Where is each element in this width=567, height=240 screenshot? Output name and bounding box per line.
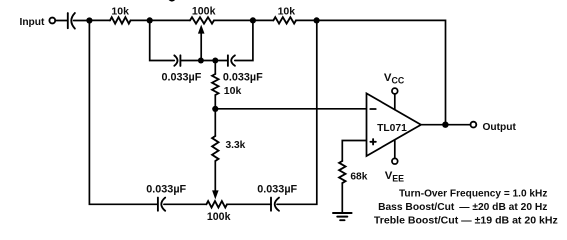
svg-text:Output: Output: [483, 122, 517, 133]
node E junction dot: [212, 106, 218, 112]
VCC pin stub: [394, 94, 396, 110]
svg-text:Bass Boost/Cut — ±20 dB at 20: Bass Boost/Cut — ±20 dB at 20 Hz: [378, 202, 547, 213]
wire: treble right cap up to node C: [235, 20, 253, 60]
resistor 3.3k (vertical): [212, 109, 218, 161]
svg-text:68k: 68k: [350, 171, 367, 182]
svg-text:0.033µF: 0.033µF: [162, 72, 202, 84]
svg-text:0.033µF: 0.033µF: [257, 183, 297, 195]
wire: 10k to node B: [131, 19, 150, 21]
output junction dot: [442, 122, 448, 128]
output terminal circle: [471, 122, 477, 128]
op-amp U1 TL071 triangle: [367, 93, 422, 156]
wire: input terminal to coupling cap: [55, 20, 67, 22]
resistor 68k (vertical): [339, 161, 345, 183]
wire: node A to resistor 10k (left): [89, 19, 110, 21]
wire: op-amp plus input to 68k: [342, 141, 366, 162]
wire: bass pot to bass right cap: [227, 203, 271, 205]
capacitor 0.033uF (treble left): [174, 55, 180, 66]
wire: 10k to node D: [296, 19, 317, 21]
node C junction dot: [250, 17, 256, 23]
capacitor 0.033uF (bass right): [271, 198, 279, 211]
resistor 10k (top right): [273, 17, 296, 23]
node B junction dot: [147, 17, 153, 23]
wire: op-amp output to output terminal: [421, 124, 471, 126]
VEE pin stub: [394, 140, 396, 158]
svg-text:100k: 100k: [207, 211, 231, 223]
input terminal circle: [49, 18, 55, 24]
VCC pin circle: [392, 88, 398, 94]
node A junction dot: [86, 17, 92, 23]
potentiometer 100k (treble) body: [190, 17, 214, 23]
op-amp plus sign: [370, 139, 375, 144]
svg-text:Input: Input: [20, 17, 45, 28]
capacitor 0.033uF (treble right): [228, 55, 235, 66]
input coupling capacitor: [68, 13, 75, 29]
junction dot at top of vertical 10k: [212, 58, 218, 64]
svg-text:0.033µF: 0.033µF: [146, 183, 186, 195]
left vertical wire: node A down to bottom rail: [89, 21, 157, 205]
ground symbol: [333, 213, 352, 220]
svg-text:TL071: TL071: [377, 123, 407, 134]
wire: treble pot to node C: [214, 19, 253, 21]
wire: 68k to ground: [341, 183, 343, 213]
wire: node B to treble pot: [150, 19, 190, 21]
node D junction dot: [314, 17, 320, 23]
op-amp minus sign: [370, 108, 375, 110]
svg-text:Treble Boost/Cut — ±19 dB at 2: Treble Boost/Cut — ±19 dB at 20 kHz: [374, 215, 558, 226]
wire: treble left cap to wiper node: [180, 60, 201, 62]
svg-text:10k: 10k: [111, 5, 129, 17]
wire: node E to op-amp inverting input: [215, 108, 365, 110]
svg-text:100k: 100k: [192, 5, 216, 17]
svg-text:Turn-Over Frequency = 1.0 kHz: Turn-Over Frequency = 1.0 kHz: [399, 188, 547, 199]
potentiometer 100k (bass) body: [206, 201, 227, 207]
svg-text:10k: 10k: [224, 85, 242, 97]
feedback wire: node D to top-right corner and down to output node: [317, 20, 446, 124]
stray cropped glyph mark at top edge: [168, 0, 175, 2]
svg-text:VEE: VEE: [385, 170, 404, 183]
svg-text:VCC: VCC: [384, 72, 405, 85]
right vertical wire: bottom rail up to node D: [277, 20, 317, 204]
VEE pin circle: [392, 158, 398, 164]
svg-text:0.033µF: 0.033µF: [223, 72, 263, 84]
svg-text:3.3k: 3.3k: [226, 140, 246, 151]
svg-text:10k: 10k: [278, 5, 296, 17]
wire: node C to resistor 10k (top right): [253, 19, 274, 21]
bass pot wiper arrow (down): [212, 161, 219, 199]
capacitor 0.033uF (bass left): [158, 198, 165, 211]
wire: node to treble right cap: [215, 60, 228, 62]
resistor 10k (top left): [110, 17, 131, 23]
wire: wiper node to 10k-vertical node: [201, 60, 215, 62]
treble pot wiper arrow: [198, 25, 205, 61]
wire: node B down to treble cap row: [150, 20, 175, 60]
wire: cap to node A: [74, 20, 90, 22]
junction dot at treble wiper: [198, 58, 204, 64]
resistor 10k (vertical): [212, 61, 218, 109]
wire: bass left cap to bass pot: [164, 203, 207, 205]
